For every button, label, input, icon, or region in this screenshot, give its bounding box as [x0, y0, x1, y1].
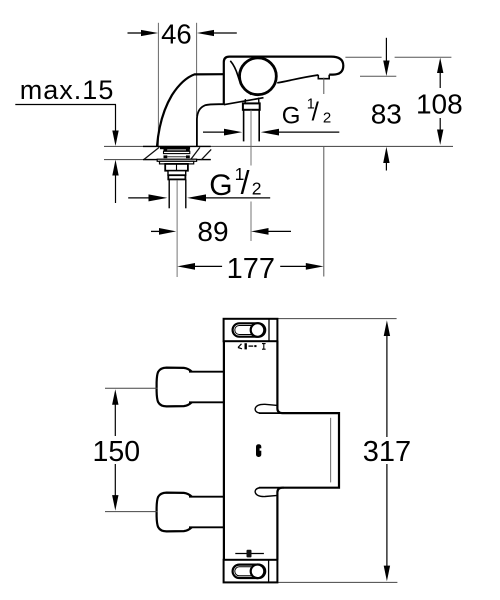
mounting nut — [165, 164, 188, 171]
dim G1/2 bottom: right arrowhead — [187, 194, 206, 201]
step 2 — [168, 175, 185, 179]
aerator — [318, 75, 329, 79]
drain symbol — [235, 553, 264, 555]
under-circle right side — [258, 98, 260, 104]
top cap rect — [224, 319, 278, 341]
spout base front outline — [157, 74, 224, 146]
top cap circle — [251, 323, 265, 337]
tail pipe right wall — [185, 179, 187, 208]
deck cut dark bottom edge — [143, 159, 211, 161]
spout junction curl top — [255, 404, 277, 413]
shank band — [164, 151, 190, 153]
dim G1/2 top: right arrowhead — [261, 129, 279, 136]
symbols row — [238, 343, 266, 349]
317 top extension line — [278, 318, 397, 320]
svg-text:150: 150 — [93, 436, 141, 468]
washer 1 — [157, 159, 196, 161]
150 bottom extension line — [105, 511, 158, 513]
body left edge — [223, 341, 225, 560]
spout junction curl bottom — [255, 488, 277, 497]
dim 150 lower shaft — [114, 464, 116, 496]
bottom cap circle — [251, 565, 265, 579]
max15 lower arrowhead — [112, 160, 118, 176]
deck hatch left — [144, 147, 159, 159]
handle 2 neck top — [189, 496, 224, 498]
dim 108 upper arrowhead — [437, 58, 443, 73]
cap circle — [240, 58, 277, 95]
dim 46 right arrowhead — [197, 30, 214, 36]
extension line 46 right — [196, 23, 198, 116]
dim 46 left segment — [128, 32, 142, 34]
shank flange bar in deck — [160, 147, 190, 150]
dim 89 right arrowhead — [251, 228, 269, 235]
handle 1 cap — [157, 368, 192, 407]
aerator extension line upper — [323, 78, 325, 94]
150 top extension line — [105, 387, 158, 389]
aerator extension line lower — [323, 147, 325, 277]
pipe2 centerline — [250, 110, 252, 166]
spout base back outline — [197, 104, 224, 146]
dim G1/2 bottom: left arrowhead — [149, 194, 168, 201]
shank thread row B — [164, 155, 168, 158]
dim 89 left arrowhead — [159, 228, 176, 235]
connector nut — [243, 103, 260, 109]
svg-text:max.15: max.15 — [20, 75, 115, 105]
svg-text:317: 317 — [363, 436, 411, 468]
dim 46 left arrowhead — [141, 30, 158, 36]
svg-text:46: 46 — [161, 18, 192, 49]
svg-text:G: G — [282, 102, 301, 129]
bottom cap rect — [224, 560, 278, 583]
step 1 — [168, 171, 186, 176]
dim G1/2 top: left segment — [203, 131, 225, 133]
washer 2 — [160, 161, 194, 164]
dim 317 lower shaft — [386, 464, 388, 567]
svg-text:G: G — [209, 169, 232, 202]
lever bottom left of aerator — [277, 75, 318, 83]
body right side with spout protrusion — [277, 341, 339, 560]
svg-text:/: / — [312, 96, 320, 126]
protrusion top line left extension — [259, 412, 284, 414]
svg-text:89: 89 — [197, 216, 228, 247]
pipe2 right wall — [258, 110, 260, 142]
bottom cap pill — [233, 565, 266, 578]
dim 177 left segment — [194, 265, 222, 267]
dim G1/2 bottom: right segment — [205, 197, 270, 199]
top cap pill — [233, 323, 266, 336]
bottom cap divider — [268, 560, 270, 582]
dim 83 top arrowhead — [383, 61, 389, 77]
handle 1 neck bottom — [189, 401, 224, 403]
dim 177 right arrowhead — [306, 263, 324, 270]
dim G1/2 top: left arrowhead — [224, 129, 242, 136]
dim 83 bottom shaft — [385, 163, 387, 171]
dim 150 upper shaft — [114, 404, 116, 436]
dim 89 right segment — [268, 230, 292, 232]
svg-text:83: 83 — [371, 98, 402, 129]
top cap inner pill — [235, 326, 256, 335]
svg-text:108: 108 — [416, 88, 463, 119]
tail pipe left wall — [168, 179, 170, 208]
pipe2 left wall — [243, 110, 245, 142]
dim 150 upper arrowhead — [112, 389, 118, 405]
svg-text:177: 177 — [227, 253, 275, 285]
protrusion inner line — [330, 418, 332, 483]
max15 upper arrow shaft — [115, 105, 117, 133]
deck bottom line — [104, 159, 211, 161]
svg-text:2: 2 — [323, 110, 331, 127]
housing and lever outline — [224, 57, 343, 105]
shank thread row A — [164, 149, 168, 151]
body dark mark — [256, 444, 261, 457]
tail pipe centerline — [176, 180, 178, 277]
handle 2 neck bottom — [189, 526, 224, 528]
dim 108 line lower — [439, 118, 441, 131]
outlet level extension line — [360, 75, 396, 77]
317 bottom extension line — [276, 581, 397, 583]
leader line max15 — [15, 104, 116, 106]
extension line 46 left — [157, 23, 159, 146]
dim 317 upper shaft — [386, 334, 388, 437]
dim 150 lower arrowhead — [112, 495, 118, 511]
dim 108 lower arrowhead — [437, 130, 443, 145]
dim 89 left segment — [151, 230, 161, 232]
svg-text:2: 2 — [252, 179, 262, 199]
max15 lower arrow shaft — [115, 175, 117, 203]
handle 1 neck top — [189, 371, 224, 373]
under-circle left side — [244, 99, 246, 103]
dim 46 right segment — [214, 32, 237, 34]
max15 upper arrowhead — [112, 131, 118, 147]
dim G1/2 bottom: left segment — [128, 197, 149, 199]
top level extension line — [345, 56, 381, 58]
cartridge collar curve — [230, 61, 251, 95]
dim 317 lower arrowhead — [384, 566, 390, 582]
svg-text:/: / — [241, 165, 250, 201]
dim G1/2 top: right segment — [278, 131, 339, 133]
deck hatch right — [191, 147, 200, 159]
dim 177 left arrowhead — [177, 263, 195, 270]
dim 108 line upper — [439, 70, 441, 88]
dim 83 bottom arrowhead — [383, 147, 389, 163]
protrusion bottom line left extension — [259, 487, 284, 489]
housing bottom diagonal — [224, 98, 264, 105]
deck cut dark top edge — [143, 145, 211, 147]
bottom cap inner pill — [235, 567, 256, 576]
top cap divider — [268, 319, 270, 341]
dim 317 upper arrowhead — [384, 320, 390, 336]
handle 2 cap — [157, 493, 192, 532]
deck top line — [104, 145, 453, 147]
dim 177 right segment — [280, 265, 306, 267]
dim 83 top arrow shaft — [385, 38, 387, 62]
